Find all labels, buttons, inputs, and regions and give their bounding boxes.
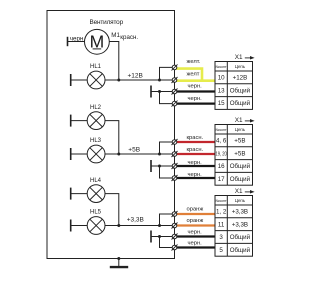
svg-text:HL4: HL4 [90, 178, 102, 184]
svg-text:+12В: +12В [128, 72, 143, 79]
terminal of HL2 [70, 115, 72, 127]
svg-text:черн.: черн. [188, 230, 203, 236]
connector designator X1 group 3 [235, 188, 255, 195]
connector contact X1 group 3 pin 2 [172, 223, 178, 229]
wire black 1 group 3 [175, 235, 216, 237]
wire supply branch to pin row 2 [160, 142, 175, 154]
svg-text:№конт: №конт [216, 128, 227, 132]
wire black 1 group 2 [175, 165, 216, 167]
svg-text:+5В: +5В [234, 150, 245, 157]
svg-text:черн.: черн. [70, 35, 86, 42]
connector contact X1 group 2 pin 2 [172, 151, 178, 157]
svg-text:15: 15 [218, 100, 225, 107]
lamp HL3 [87, 145, 105, 163]
svg-text:X1: X1 [235, 188, 243, 195]
device enclosure box [47, 11, 175, 259]
svg-text:19, 20: 19, 20 [216, 151, 227, 157]
wire colored 2 group 2 [175, 153, 216, 155]
wire supply branch to pin row 3 [160, 214, 175, 226]
svg-text:Общий: Общий [230, 247, 251, 254]
svg-text:оранж: оранж [187, 218, 204, 224]
connector table X1 group 3 [215, 196, 253, 257]
svg-text:11: 11 [218, 221, 225, 228]
svg-text:оранж: оранж [187, 207, 204, 213]
svg-text:+5В: +5В [128, 147, 140, 154]
lamp HL5 [87, 217, 105, 235]
wire motor left, label черн. [68, 41, 85, 43]
junction supply branch 1 [158, 79, 161, 82]
svg-text:10: 10 [218, 75, 225, 82]
terminal of HL1 [70, 74, 72, 86]
wire ground branch group 1 [160, 92, 175, 104]
wire ground group 2 [151, 165, 175, 167]
junction ground at enclosure bottom [117, 257, 120, 260]
svg-text:черн.: черн. [188, 84, 203, 90]
connector designator X1 group 2 [235, 117, 255, 124]
wire black 2 group 1 [175, 102, 216, 104]
svg-text:+5В: +5В [234, 138, 245, 145]
svg-text:№конт: №конт [216, 199, 227, 203]
connector contact X1 group 2 pin 1 [172, 139, 178, 145]
ground [110, 259, 128, 268]
terminal of HL5 [70, 220, 72, 232]
svg-text:HL2: HL2 [90, 105, 102, 111]
ground terminal bar group 3 [150, 231, 152, 243]
wire HL5 left [71, 225, 88, 227]
motor left terminal [67, 37, 69, 46]
junction ground branch 2 [158, 165, 161, 168]
svg-text:Общий: Общий [230, 234, 251, 241]
junction HL4/+3.3V [117, 224, 120, 227]
lamp HL2 [87, 112, 105, 130]
lamp HL4 [87, 185, 105, 203]
wire black 2 group 2 [175, 177, 216, 179]
wire supply branch to pin row 1 [160, 67, 175, 80]
connector contact X1 group 2 pin 4 [172, 175, 178, 181]
junction supply branch 2 [158, 153, 161, 156]
wire colored 1 group 2 [175, 141, 216, 143]
wire black 1 group 1 [175, 90, 216, 92]
wire motor to +12V node, label красн. [109, 42, 119, 81]
wire colored 2 group 3 [175, 224, 216, 226]
svg-text:1, 2: 1, 2 [216, 209, 227, 216]
wire HL4 left [71, 193, 88, 195]
connector designator X1 group 1 [235, 54, 255, 61]
ground terminal bar group 2 [150, 160, 152, 172]
junction ground branch 3 [158, 235, 161, 238]
svg-text:черн.: черн. [188, 160, 203, 166]
svg-text:+3,3В: +3,3В [232, 209, 248, 216]
svg-text:желт.: желт. [187, 59, 201, 65]
svg-text:Цепь: Цепь [235, 64, 246, 69]
svg-text:черн.: черн. [188, 96, 203, 102]
svg-text:M: M [90, 31, 105, 51]
terminal of HL4 [70, 188, 72, 200]
wire yellow to pin 10 [175, 79, 216, 82]
wire HL4 to +3.3V net [105, 194, 119, 226]
svg-text:5: 5 [219, 247, 223, 254]
wire +3.3V net (HL5 to connector) [105, 225, 175, 227]
connector contact X1 group 1 pin 2 [172, 77, 178, 83]
wire HL2 to +5V net [105, 121, 119, 154]
connector contact X1 group 3 pin 4 [172, 245, 178, 251]
svg-text:красн.: красн. [120, 34, 138, 41]
junction HL2/+5V [117, 153, 120, 156]
svg-text:Общий: Общий [230, 176, 251, 183]
connector contact X1 group 1 pin 4 [172, 101, 178, 107]
svg-text:Общий: Общий [230, 100, 251, 107]
terminal of HL3 [70, 148, 72, 160]
connector contact X1 group 3 pin 3 [172, 234, 178, 240]
wire colored 1 group 3 [175, 213, 216, 215]
svg-text:X1: X1 [235, 54, 243, 61]
svg-text:HL5: HL5 [90, 210, 102, 216]
wire ground group 3 [151, 236, 175, 238]
svg-text:Общий: Общий [230, 87, 251, 94]
wire HL3 left [71, 153, 88, 155]
svg-text:желт: желт [187, 72, 200, 78]
svg-text:№конт: №конт [216, 65, 227, 69]
svg-text:красн.: красн. [187, 147, 204, 153]
lamp HL1 [87, 71, 105, 89]
svg-text:красн.: красн. [187, 135, 204, 141]
motor M1 (fan) [85, 29, 110, 54]
svg-text:M1: M1 [111, 32, 120, 39]
wire HL2 left [71, 120, 88, 122]
svg-text:черн.: черн. [188, 172, 203, 178]
svg-text:Цепь: Цепь [235, 198, 246, 203]
svg-text:Общий: Общий [230, 163, 251, 170]
wire ground branch group 2 [160, 166, 175, 178]
wire +5V net (HL3 to connector) [105, 153, 175, 155]
svg-text:HL1: HL1 [90, 64, 102, 70]
svg-text:Вентилятор: Вентилятор [90, 19, 124, 26]
wire ground branch group 3 [160, 237, 175, 248]
wire HL1 left [71, 79, 88, 81]
svg-text:черн.: черн. [188, 241, 203, 247]
svg-text:+3,3В: +3,3В [127, 216, 144, 223]
connector contact X1 group 3 pin 1 [172, 211, 178, 217]
ground terminal bar group 1 [150, 86, 152, 98]
connector contact X1 group 2 pin 3 [172, 163, 178, 169]
svg-text:4, 6: 4, 6 [216, 138, 227, 145]
connector table X1 group 2 [215, 125, 253, 186]
junction ground branch 1 [158, 90, 161, 93]
svg-text:3: 3 [219, 234, 223, 241]
wire black 2 group 3 [175, 246, 216, 248]
svg-text:17: 17 [218, 176, 225, 183]
connector table X1 group 1 [215, 62, 253, 110]
svg-text:HL3: HL3 [90, 138, 102, 144]
svg-text:13: 13 [218, 87, 225, 94]
svg-text:+3,3В: +3,3В [232, 221, 248, 228]
svg-text:+12В: +12В [233, 75, 248, 82]
junction motor/+12V [117, 79, 120, 82]
wire +12V net (HL1 to connector) [105, 79, 175, 81]
svg-text:Цепь: Цепь [235, 127, 246, 132]
connector contact X1 group 1 pin 3 [172, 89, 178, 95]
junction supply branch 3 [158, 224, 161, 227]
wire ground group 1 [151, 91, 175, 93]
svg-text:X1: X1 [235, 117, 243, 124]
connector contact X1 group 1 pin 1 [172, 64, 178, 70]
wire yellow pin1 merge [175, 69, 203, 81]
svg-text:16: 16 [218, 163, 225, 170]
